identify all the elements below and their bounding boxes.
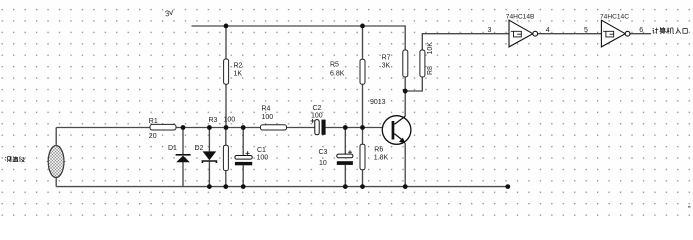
wire R3 leads [225, 128, 227, 146]
zener diode D2 [195, 145, 217, 163]
char 口 [683, 29, 687, 34]
resistor R7 [382, 50, 408, 77]
svg-text:R2: R2 [234, 62, 243, 69]
svg-text:100: 100 [257, 155, 269, 162]
node collector [403, 89, 408, 94]
node power/R2 [224, 24, 229, 29]
node ground/C1 [241, 184, 246, 189]
svg-text:D2: D2 [195, 145, 204, 152]
wire top power rail [192, 26, 406, 50]
svg-text:4: 4 [546, 27, 550, 34]
wire ground rail [56, 186, 508, 188]
wire D2 leads [208, 128, 210, 152]
char 计 [652, 28, 658, 34]
node ground/D2 [207, 184, 212, 189]
resistor R4 [260, 105, 286, 130]
svg-text:C3: C3 [319, 149, 328, 156]
wire collector node to R8 [405, 77, 422, 91]
node ground end [505, 184, 510, 189]
wire emitter down to ground [404, 143, 406, 186]
svg-text:R6: R6 [374, 146, 383, 153]
wire mic bottom lead [55, 177, 57, 187]
resistor R1 [149, 118, 176, 140]
wire R8 top to inverter input [422, 34, 509, 50]
wire signal line left [56, 127, 150, 129]
node ground/emitter [403, 184, 408, 189]
svg-text:9013: 9013 [370, 99, 386, 106]
svg-text:100: 100 [311, 112, 323, 119]
svg-text:R3: R3 [209, 117, 218, 124]
wire inverter1 out to inverter2 in [538, 33, 602, 35]
svg-text:3K: 3K [382, 62, 391, 69]
node ground/R6 [360, 184, 365, 189]
svg-text:74HC14B: 74HC14B [506, 13, 535, 20]
wire C3 leads [344, 128, 346, 155]
resistor R8 [420, 42, 434, 77]
svg-text:R7: R7 [382, 55, 391, 62]
svg-text:6: 6 [639, 27, 643, 34]
node power/R5 [360, 24, 365, 29]
wire R5 branch lower [362, 84, 364, 127]
svg-text:R8: R8 [427, 66, 434, 75]
svg-text:5: 5 [584, 27, 588, 34]
wire D1 leads [182, 128, 184, 155]
char 机 [667, 28, 674, 34]
wire R7 lower lead / collector [404, 77, 406, 116]
svg-text:100: 100 [224, 116, 236, 123]
svg-text:1.8K: 1.8K [374, 155, 389, 162]
wire R5 branch upper [362, 26, 364, 59]
node signal/D2 [207, 125, 212, 130]
char 速 [13, 156, 19, 161]
char 测 [5, 156, 11, 162]
svg-text:74HC14C: 74HC14C [600, 13, 629, 20]
corner artifact [688, 206, 691, 208]
svg-text:R4: R4 [262, 105, 271, 112]
wire C1 leads [242, 128, 244, 156]
diode D1 [168, 145, 191, 162]
svg-text:R5: R5 [330, 61, 339, 68]
svg-text:100: 100 [262, 114, 274, 121]
op-amp U1B 74HC14C schmitt inverter [584, 13, 643, 47]
svg-text:10K: 10K [427, 42, 434, 55]
wire signal line mid [176, 127, 315, 129]
wire inverter2 out [630, 33, 651, 35]
capacitor C3 [319, 149, 353, 167]
wire mic top lead [55, 128, 57, 147]
wire R2 branch lower [225, 84, 227, 127]
label 计算机入口 output [652, 27, 687, 34]
char 仪 [19, 156, 24, 162]
node ground/R3 [223, 184, 228, 189]
node ground/C3 [343, 184, 348, 189]
svg-text:20: 20 [149, 133, 157, 140]
capacitor C1 [235, 147, 268, 165]
node signal/C1 [241, 125, 246, 130]
svg-text:1K: 1K [234, 70, 243, 77]
svg-text:R1: R1 [149, 118, 158, 125]
svg-text:C2: C2 [313, 105, 322, 112]
svg-text:3: 3 [488, 27, 492, 34]
svg-text:C1: C1 [257, 147, 266, 154]
svg-text:10: 10 [319, 160, 327, 167]
char 入 [676, 28, 681, 34]
node signal/D1 [181, 125, 186, 130]
svg-text:6.8K: 6.8K [330, 70, 345, 77]
op-amp U1A 74HC14B schmitt inverter [488, 13, 550, 47]
capacitor C2 [311, 105, 326, 135]
resistor R2 [224, 59, 243, 84]
transistor Q1 9013 [370, 99, 411, 144]
resistor R5 [330, 59, 365, 84]
wire signal line right to base [326, 127, 392, 129]
resistor R6 [360, 144, 389, 170]
node signal/R2R3 [224, 125, 229, 130]
char 算 [660, 27, 666, 34]
svg-text:D1: D1 [168, 145, 177, 152]
wire R2 branch upper [225, 26, 227, 59]
node signal/C3 [343, 125, 348, 130]
resistor R3 [209, 116, 236, 170]
microphone sensor (测速仪) [5, 146, 66, 178]
node signal/R5R6 base [360, 125, 365, 130]
wire R6 leads [362, 128, 364, 145]
